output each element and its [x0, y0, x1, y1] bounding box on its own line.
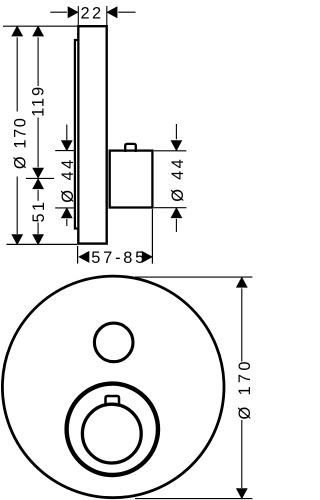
svg-text:119: 119 [30, 87, 48, 117]
dimension 57-85 extension lines [78, 209, 153, 264]
dimension 119 label [30, 87, 48, 117]
dimension D170 front extension lines [135, 277, 252, 499]
dimension 57-85 arrows [78, 251, 153, 263]
dimension D44 left label [59, 160, 77, 203]
diverter button front view [94, 323, 133, 362]
escutcheon plate side view [78, 26, 106, 243]
plate rear flange side view [75, 40, 78, 229]
dimension D44 left line and arrows [61, 125, 73, 227]
dimension D170 front label [236, 362, 254, 420]
svg-text:Ø 44: Ø 44 [169, 159, 187, 202]
knob grip tab front view [106, 396, 120, 405]
dimension D44 left extension lines [55, 151, 76, 208]
dimension D44 right line and arrows [171, 124, 183, 232]
thermostat knob outer ring front view [67, 384, 158, 475]
dimension 22 leader lines and arrows [50, 6, 135, 18]
dimension 22 label [81, 4, 102, 22]
svg-text:Ø 170: Ø 170 [11, 118, 29, 169]
valve body box side view [110, 151, 153, 208]
dimension 22 extension lines [78, 6, 107, 26]
valve centerline extension [26, 177, 54, 179]
dimension D44 right extension lines [154, 151, 187, 208]
dimension D170 left label [11, 118, 29, 169]
escutcheon plate front view circle [2, 276, 224, 498]
dimension 119 line and arrows [32, 25, 44, 178]
top extension line left [3, 25, 78, 27]
svg-text:Ø 44: Ø 44 [59, 160, 77, 203]
dimension 57-85 label [91, 249, 144, 267]
svg-text:Ø 170: Ø 170 [236, 362, 253, 420]
valve button tab side view [125, 144, 136, 152]
dimension D170 left line and arrows [11, 25, 23, 245]
svg-text:57-85: 57-85 [91, 249, 144, 267]
bottom extension line left [7, 243, 78, 245]
dimension D44 right label [169, 159, 187, 202]
dimension 51 line and arrows [32, 178, 44, 245]
dimension 51 label [30, 202, 48, 223]
thermostat knob inner circle front view [82, 404, 141, 463]
dimension D170 front line and arrows [236, 277, 248, 500]
